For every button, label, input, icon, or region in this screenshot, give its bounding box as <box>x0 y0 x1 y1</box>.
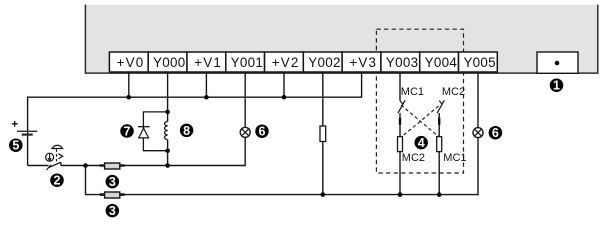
coil MC2 (left) <box>398 137 403 152</box>
wire +V rail <box>28 96 362 98</box>
COM terminal dot <box>555 61 560 66</box>
wire MC1 coil to wire2 <box>438 152 440 195</box>
wire 1 pushbutton to Y001 branch <box>61 165 245 167</box>
wire Y005 branch upper <box>477 72 479 128</box>
contact MC1 blade <box>398 100 405 113</box>
wire +V2 stub <box>283 72 285 97</box>
node coil top <box>165 110 170 115</box>
label 3 (lower resistor) <box>106 204 120 218</box>
svg-text:MC2: MC2 <box>402 152 425 164</box>
battery plus sign <box>12 121 18 127</box>
wire Y003 stub <box>399 72 401 101</box>
COM terminal box <box>537 52 578 73</box>
svg-text:MC2: MC2 <box>442 86 465 98</box>
svg-text:+V2: +V2 <box>272 55 300 70</box>
pushbutton S1 stem <box>56 149 58 161</box>
interlock dashed link A <box>401 105 440 137</box>
svg-text:MC1: MC1 <box>401 86 424 98</box>
svg-text:2: 2 <box>54 174 61 188</box>
label 5 <box>9 138 22 152</box>
node wire1 Y000 junction <box>165 163 170 168</box>
pushbutton S1 mushroom head <box>51 145 63 148</box>
lamp X2 <box>473 128 483 138</box>
wire Y001 branch <box>244 72 246 127</box>
interlock dashed link B <box>400 106 438 138</box>
PLC unit body <box>85 5 599 74</box>
svg-text:5: 5 <box>12 139 19 153</box>
wire Y001 branch lower <box>244 137 246 166</box>
pushbutton S1 push arrow <box>48 154 51 161</box>
wire +V3 stub <box>361 72 363 98</box>
contact MC2 blade <box>437 100 444 113</box>
wire Y002 branch lower <box>322 141 324 195</box>
wire MC1 contact to coil <box>399 113 401 137</box>
dashed interlock box <box>376 29 463 173</box>
coil MC1 (right) <box>437 137 442 152</box>
label 1 <box>550 78 564 92</box>
wire diode loop <box>143 112 167 151</box>
node coil bottom <box>165 148 170 153</box>
diode D1 cathode bar <box>138 126 150 128</box>
wire +V0 stub <box>128 72 130 97</box>
label 4 <box>414 136 428 150</box>
wire Y005 branch lower <box>477 138 479 196</box>
contact MC2 fixed tick <box>439 101 442 105</box>
node MC1 wire2 junction <box>437 192 442 197</box>
wire +V1 stub <box>205 72 207 97</box>
svg-text:6: 6 <box>492 126 499 140</box>
label 2 <box>50 173 64 187</box>
resistor R3 (Y002 load) <box>320 126 326 142</box>
node Y002 wire2 junction <box>321 192 326 197</box>
battery B1 short plate <box>22 134 33 136</box>
wire battery to pushbutton <box>28 165 49 167</box>
wire Y000 branch lower <box>167 140 169 166</box>
svg-text:Y002: Y002 <box>308 55 340 70</box>
node +V1 rail junction <box>204 95 209 100</box>
svg-text:+V0: +V0 <box>117 55 145 70</box>
svg-text:8: 8 <box>183 124 190 138</box>
wire down to wire 2 <box>86 166 479 195</box>
lamp X1 <box>240 127 250 137</box>
svg-text:Y003: Y003 <box>386 55 418 70</box>
svg-text:7: 7 <box>124 124 131 138</box>
label 6 (lamp X1) <box>255 124 269 138</box>
svg-text:6: 6 <box>259 125 266 139</box>
pushbutton S1 right contact tick <box>60 162 62 166</box>
svg-text:Y001: Y001 <box>231 55 263 70</box>
node +V0 rail junction <box>127 95 132 100</box>
svg-text:3: 3 <box>109 204 116 218</box>
pushbutton S1 blade <box>49 162 61 167</box>
svg-text:Y004: Y004 <box>425 55 458 70</box>
resistor R2 <box>100 193 125 196</box>
label 6 (lamp X2) <box>489 126 503 140</box>
svg-text:+V1: +V1 <box>194 55 222 70</box>
svg-text:1: 1 <box>553 79 560 93</box>
diode D1 triangle <box>139 128 149 138</box>
node +V2 rail junction <box>282 95 287 100</box>
contact MC1 fixed tick <box>400 101 403 105</box>
svg-text:Y000: Y000 <box>153 55 185 70</box>
svg-text:4: 4 <box>418 136 425 150</box>
wire Y000 branch upper <box>167 72 169 122</box>
wire MC2 coil to wire2 <box>399 152 401 195</box>
node wire1 split <box>83 163 88 168</box>
svg-text:MC1: MC1 <box>443 152 466 164</box>
label 3 (upper resistor) <box>106 175 120 189</box>
wire Y002 branch upper <box>322 72 324 127</box>
label 7 <box>120 124 134 138</box>
terminal block row <box>109 52 497 72</box>
battery B1 long plate <box>17 130 37 132</box>
label 8 <box>180 124 194 138</box>
pushbutton S1 left tick <box>47 165 52 170</box>
node MC2 wire2 junction <box>398 192 403 197</box>
wire battery drop <box>27 97 29 166</box>
pushbutton S1 chevron <box>58 154 62 159</box>
svg-text:+V3: +V3 <box>349 55 377 70</box>
inductor L1 coil <box>165 121 168 139</box>
resistor R1 <box>100 164 125 167</box>
svg-text:Y005: Y005 <box>463 55 495 70</box>
svg-text:3: 3 <box>109 175 116 189</box>
pushbutton S1 push symbol circle <box>46 153 54 161</box>
wire MC2 contact to coil <box>438 113 440 137</box>
